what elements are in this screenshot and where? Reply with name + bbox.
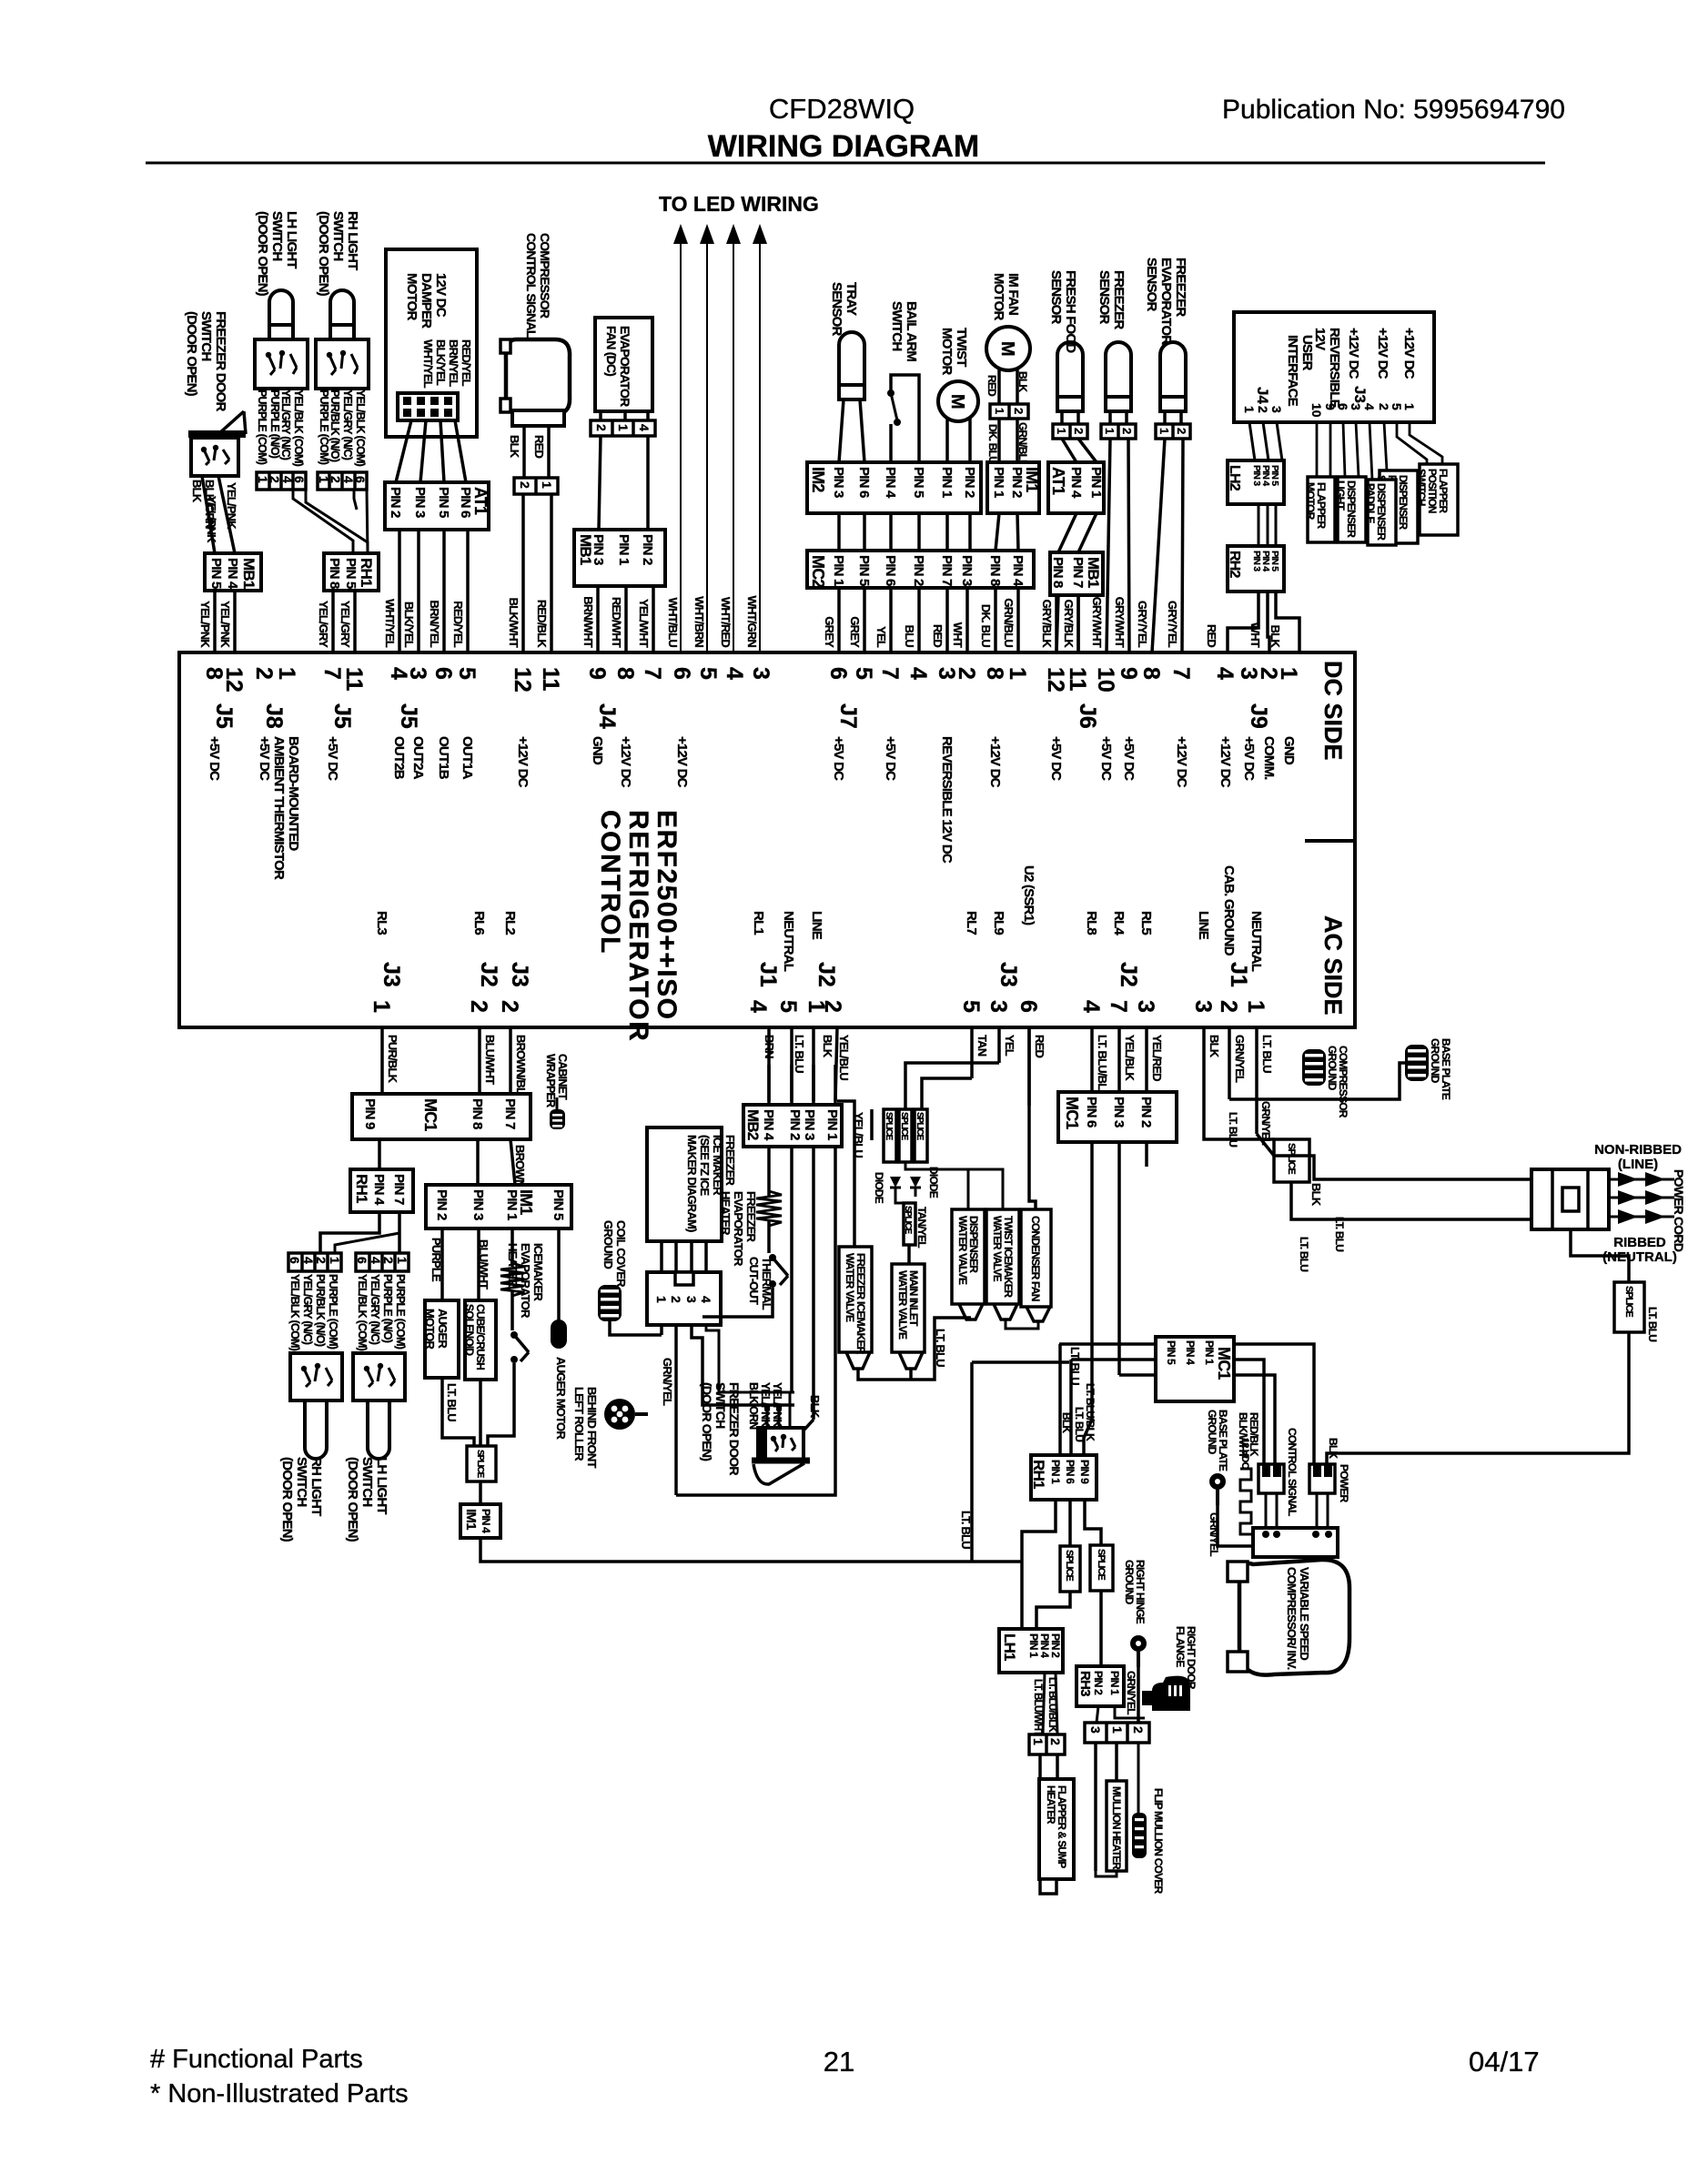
svg-text:+12V DC: +12V DC: [1375, 328, 1390, 379]
svg-text:BLK: BLK: [1016, 371, 1029, 392]
svg-text:YEL/GRY: YEL/GRY: [317, 601, 330, 648]
svg-text:YEL/BLK (COM): YEL/BLK (COM): [292, 389, 305, 467]
svg-text:PURPLE (N/O): PURPLE (N/O): [268, 389, 281, 459]
svg-text:PURPLE (N/O): PURPLE (N/O): [381, 1274, 394, 1343]
svg-text:LT. BLU: LT. BLU: [1646, 1307, 1659, 1341]
svg-text:3: 3: [986, 1000, 1011, 1013]
svg-text:AC SIDE: AC SIDE: [1319, 915, 1347, 1016]
svg-text:6: 6: [825, 667, 851, 680]
svg-text:1: 1: [369, 1000, 394, 1013]
svg-text:BEHIND FRONTLEFT ROLLER: BEHIND FRONTLEFT ROLLER: [572, 1387, 599, 1468]
svg-text:PUR/BLK (N/O): PUR/BLK (N/O): [314, 1274, 327, 1347]
svg-text:SPLICE: SPLICE: [475, 1450, 485, 1478]
svg-text:COMPRESSORCONTROL SIGNAL: COMPRESSORCONTROL SIGNAL: [524, 233, 552, 339]
svg-text:PURPLE (COM): PURPLE (COM): [318, 389, 330, 465]
svg-text:2: 2: [518, 481, 532, 489]
svg-text:BROWN: BROWN: [513, 1145, 527, 1188]
svg-text:J3: J3: [1351, 386, 1369, 403]
svg-text:SPLICE: SPLICE: [1096, 1549, 1107, 1580]
svg-text:RL9: RL9: [991, 911, 1006, 935]
svg-text:RED/WHT: RED/WHT: [610, 597, 623, 648]
svg-text:2: 2: [1175, 428, 1188, 434]
svg-text:10: 10: [1093, 667, 1118, 693]
svg-text:RED: RED: [1033, 1035, 1046, 1057]
svg-text:FREEZEREVAPORATORSENSOR: FREEZEREVAPORATORSENSOR: [1144, 258, 1188, 345]
svg-text:PIN 2: PIN 2: [388, 487, 403, 518]
svg-text:1: 1: [1242, 406, 1257, 413]
svg-text:PIN 1: PIN 1: [1027, 1633, 1040, 1658]
svg-text:GRN/YEL: GRN/YEL: [1208, 1512, 1220, 1556]
svg-text:PIN 7: PIN 7: [502, 1098, 518, 1129]
svg-text:2: 2: [669, 1296, 683, 1303]
svg-text:GRN/YEL: GRN/YEL: [1125, 1671, 1137, 1714]
svg-text:PIN 3: PIN 3: [412, 487, 428, 518]
svg-text:3: 3: [1088, 1726, 1103, 1734]
svg-text:8: 8: [982, 667, 1007, 680]
svg-text:GRN/BLU: GRN/BLU: [1002, 598, 1016, 647]
svg-text:+5V DC: +5V DC: [1048, 736, 1064, 781]
svg-text:RH LIGHTSWITCH(DOOR OPEN): RH LIGHTSWITCH(DOOR OPEN): [279, 1457, 324, 1542]
svg-text:PIN 4: PIN 4: [225, 558, 240, 590]
svg-text:1: 1: [1276, 667, 1301, 680]
svg-text:2: 2: [1048, 1738, 1063, 1745]
svg-text:IM1: IM1: [463, 1509, 479, 1530]
svg-text:J5: J5: [329, 703, 355, 729]
svg-text:NEUTRAL: NEUTRAL: [781, 911, 796, 972]
svg-text:NEUTRAL: NEUTRAL: [1248, 911, 1264, 972]
svg-text:GRY/BLK: GRY/BLK: [1062, 600, 1076, 649]
svg-text:1: 1: [1157, 428, 1171, 434]
svg-text:J3: J3: [996, 962, 1021, 987]
svg-text:BLK/YEL: BLK/YEL: [402, 602, 416, 648]
svg-text:DC SIDE: DC SIDE: [1319, 661, 1347, 761]
svg-text:PIN 5: PIN 5: [551, 1189, 566, 1220]
svg-text:YEL/GRY (N/C): YEL/GRY (N/C): [279, 389, 292, 460]
svg-text:MC1: MC1: [1215, 1347, 1233, 1380]
svg-text:4: 4: [369, 1257, 383, 1264]
svg-text:REVERSIBLE 12V DC: REVERSIBLE 12V DC: [939, 736, 955, 864]
svg-text:2: 2: [820, 1000, 845, 1013]
svg-text:2: 2: [594, 424, 609, 431]
svg-text:SPLICE: SPLICE: [903, 1206, 913, 1234]
svg-text:4: 4: [1212, 667, 1238, 680]
svg-text:TRAYSENSOR: TRAYSENSOR: [829, 282, 859, 337]
svg-text:PIN 1: PIN 1: [1088, 467, 1104, 498]
svg-text:RH LIGHTSWITCH(DOOR OPEN): RH LIGHTSWITCH(DOOR OPEN): [316, 211, 360, 297]
svg-text:PIN 7: PIN 7: [939, 555, 955, 586]
svg-text:POWER: POWER: [1338, 1464, 1350, 1502]
svg-text:GREY: GREY: [848, 616, 862, 648]
svg-text:PIN 3: PIN 3: [831, 467, 846, 498]
svg-text:LINE: LINE: [809, 911, 824, 940]
svg-text:2: 2: [329, 476, 343, 483]
svg-text:LINE: LINE: [1196, 911, 1211, 940]
svg-text:PIN 8: PIN 8: [470, 1098, 485, 1129]
svg-text:RL6: RL6: [471, 911, 487, 935]
svg-text:WHT/YEL: WHT/YEL: [383, 599, 397, 648]
svg-text:RL2: RL2: [502, 911, 518, 935]
svg-text:7: 7: [1168, 667, 1194, 680]
svg-text:RH1: RH1: [353, 1174, 370, 1203]
svg-text:+12V DC: +12V DC: [618, 736, 633, 788]
svg-text:PIN 4: PIN 4: [1184, 1340, 1197, 1365]
svg-text:2: 2: [1120, 428, 1134, 434]
svg-text:PIN 1: PIN 1: [939, 467, 955, 498]
svg-text:GRN/BLU: GRN/BLU: [1016, 422, 1029, 467]
svg-text:GRY/WHT: GRY/WHT: [1113, 597, 1127, 648]
svg-text:PIN 5: PIN 5: [208, 558, 224, 589]
svg-text:PIN 5: PIN 5: [1269, 551, 1280, 571]
svg-text:+12V DC: +12V DC: [674, 736, 690, 788]
svg-text:RED/YELBRN/YELBLK/YELWHT/YEL: RED/YELBRN/YELBLK/YELWHT/YEL: [421, 339, 473, 389]
svg-text:WHT/BLU: WHT/BLU: [666, 598, 680, 648]
svg-text:AUGER MOTOR: AUGER MOTOR: [554, 1357, 568, 1440]
svg-text:TAN/YEL: TAN/YEL: [915, 1207, 928, 1248]
svg-text:+12V DC: +12V DC: [1401, 328, 1417, 379]
svg-text:LT. BLU: LT. BLU: [959, 1511, 973, 1549]
svg-text:PIN 4: PIN 4: [883, 467, 898, 499]
svg-text:2: 2: [268, 476, 282, 483]
svg-text:YEL/BLK: YEL/BLK: [1123, 1035, 1137, 1081]
svg-text:YEL/PNK: YEL/PNK: [225, 482, 238, 530]
svg-text:7: 7: [319, 667, 345, 680]
svg-text:DIODE: DIODE: [927, 1167, 940, 1198]
svg-text:3: 3: [1190, 1000, 1216, 1013]
svg-text:PIN 4: PIN 4: [761, 1109, 776, 1141]
svg-text:BLK: BLK: [821, 1035, 834, 1058]
svg-text:4: 4: [699, 1296, 713, 1303]
svg-text:PIN 7: PIN 7: [1070, 557, 1086, 588]
svg-text:YEL/GRY (N/C): YEL/GRY (N/C): [341, 389, 354, 460]
svg-text:YEL: YEL: [1003, 1035, 1016, 1057]
svg-text:4: 4: [905, 667, 931, 680]
svg-text:+5V DC: +5V DC: [257, 736, 272, 781]
svg-text:J4: J4: [594, 703, 620, 729]
svg-text:LT. BLU: LT. BLU: [1260, 1035, 1274, 1073]
svg-text:4: 4: [1078, 1000, 1104, 1013]
svg-text:RL7: RL7: [964, 911, 979, 935]
svg-text:+5V DC: +5V DC: [883, 736, 898, 781]
svg-text:BAIL ARMSWITCH: BAIL ARMSWITCH: [889, 301, 919, 361]
svg-text:LT. BLU: LT. BLU: [1227, 1112, 1239, 1147]
svg-text:PIN 4: PIN 4: [1068, 467, 1084, 499]
svg-text:AUGERMOTOR: AUGERMOTOR: [423, 1309, 450, 1350]
svg-text:4: 4: [301, 1257, 316, 1264]
svg-text:FREEZEREVAPORATORHEATER: FREEZEREVAPORATORHEATER: [719, 1191, 758, 1267]
svg-text:BRN/YEL: BRN/YEL: [428, 601, 441, 648]
svg-text:YEL/PNK: YEL/PNK: [218, 601, 232, 648]
svg-text:BLK/WHT: BLK/WHT: [507, 598, 521, 648]
svg-text:1: 1: [1110, 1726, 1125, 1734]
svg-text:PIN 2: PIN 2: [1092, 1671, 1105, 1695]
svg-text:1: 1: [540, 481, 554, 489]
svg-text:7: 7: [877, 667, 903, 680]
svg-text:MC1: MC1: [421, 1098, 440, 1131]
svg-text:+5V DC: +5V DC: [1241, 736, 1257, 781]
svg-text:PIN 1: PIN 1: [1049, 1460, 1062, 1484]
svg-text:CONDENSER FAN: CONDENSER FAN: [1029, 1216, 1042, 1301]
svg-text:PIN 1: PIN 1: [991, 467, 1006, 498]
svg-text:J3: J3: [507, 962, 532, 987]
svg-text:BASE PLATEGROUND: BASE PLATEGROUND: [1206, 1410, 1229, 1471]
svg-text:RED: RED: [1205, 624, 1218, 647]
svg-text:+5V DC: +5V DC: [831, 736, 846, 781]
svg-text:6: 6: [1336, 403, 1350, 410]
svg-text:8: 8: [1138, 667, 1164, 680]
svg-text:GRN/YEL: GRN/YEL: [661, 1358, 674, 1406]
svg-text:2: 2: [381, 1257, 396, 1264]
svg-text:TO LED WIRING: TO LED WIRING: [659, 192, 819, 216]
svg-text:RL1: RL1: [751, 911, 766, 935]
svg-text:MC2: MC2: [809, 555, 827, 588]
svg-text:GND: GND: [590, 736, 605, 765]
svg-text:PIN 4: PIN 4: [480, 1509, 492, 1533]
svg-text:NON-RIBBED: NON-RIBBED: [1594, 1142, 1682, 1158]
svg-text:BASE PLATEGROUND: BASE PLATEGROUND: [1429, 1038, 1452, 1100]
svg-text:RH3: RH3: [1077, 1671, 1093, 1696]
svg-text:2: 2: [251, 667, 277, 680]
svg-text:1: 1: [1103, 428, 1117, 434]
svg-text:DK. BLU: DK. BLU: [979, 604, 993, 648]
svg-text:RED: RED: [931, 624, 945, 647]
svg-text:PIN 4: PIN 4: [1038, 1633, 1051, 1658]
svg-text:AT1: AT1: [471, 487, 490, 515]
svg-text:RH1: RH1: [1030, 1460, 1047, 1489]
svg-text:FREEZER DOORSWITCH(DOOR OPEN): FREEZER DOORSWITCH(DOOR OPEN): [700, 1382, 742, 1475]
svg-text:PUR/BLK (N/O): PUR/BLK (N/O): [329, 389, 341, 462]
svg-text:+12V DC: +12V DC: [515, 736, 531, 788]
svg-text:LT. BLU/BLK: LT. BLU/BLK: [1096, 1035, 1109, 1098]
svg-text:2: 2: [497, 1000, 522, 1013]
svg-text:J1: J1: [755, 962, 781, 987]
svg-text:+12V DC: +12V DC: [1218, 736, 1233, 788]
svg-text:PIN 3: PIN 3: [591, 534, 606, 565]
svg-text:MULLION HEATER: MULLION HEATER: [1110, 1786, 1121, 1870]
svg-text:J4: J4: [1254, 387, 1271, 404]
svg-text:GRY/YEL: GRY/YEL: [1166, 601, 1179, 648]
svg-text:PIN 1: PIN 1: [824, 1109, 840, 1140]
svg-text:6: 6: [1016, 1000, 1041, 1013]
svg-text:AT1: AT1: [1049, 467, 1067, 495]
svg-text:YEL/GRY (N/C): YEL/GRY (N/C): [301, 1274, 314, 1345]
svg-text:+12V DC: +12V DC: [1346, 328, 1361, 379]
svg-text:PIN 9: PIN 9: [1078, 1460, 1091, 1484]
svg-text:DK. BLU: DK. BLU: [986, 424, 999, 463]
svg-text:YEL/GRY (N/C): YEL/GRY (N/C): [369, 1274, 381, 1345]
svg-text:5: 5: [958, 1000, 984, 1013]
svg-text:PIN 5: PIN 5: [856, 555, 872, 586]
svg-text:9: 9: [584, 667, 610, 680]
svg-text:2: 2: [1256, 406, 1270, 413]
svg-text:5: 5: [851, 667, 876, 680]
svg-text:OUT2A: OUT2A: [410, 736, 426, 780]
svg-text:J2: J2: [1116, 962, 1141, 987]
svg-text:RH1: RH1: [358, 558, 375, 587]
svg-text:1: 1: [616, 424, 631, 431]
svg-text:IM2: IM2: [809, 467, 827, 492]
svg-text:2: 2: [1216, 1000, 1241, 1013]
svg-text:1: 1: [395, 1257, 409, 1264]
svg-text:PIN 3: PIN 3: [802, 1109, 817, 1140]
svg-text:RL5: RL5: [1138, 911, 1154, 935]
svg-text:PIN 2: PIN 2: [1009, 467, 1025, 498]
svg-text:+12V DC: +12V DC: [987, 736, 1003, 788]
svg-text:11: 11: [538, 667, 563, 692]
svg-text:WIRING DIAGRAM: WIRING DIAGRAM: [708, 129, 979, 164]
svg-text:6: 6: [430, 667, 456, 680]
svg-text:PIN 6: PIN 6: [883, 555, 898, 586]
svg-text:2: 2: [954, 667, 979, 680]
svg-text:LH1: LH1: [1001, 1633, 1018, 1661]
svg-text:4: 4: [637, 424, 652, 431]
svg-text:PIN 6: PIN 6: [1084, 1097, 1099, 1127]
svg-text:CONTROL SIGNAL: CONTROL SIGNAL: [1286, 1428, 1299, 1516]
svg-text:+5V DC: +5V DC: [1121, 736, 1137, 781]
svg-text:21: 21: [824, 2046, 854, 2078]
svg-text:1: 1: [993, 408, 1006, 414]
svg-text:IM1: IM1: [1023, 467, 1041, 492]
svg-text:6: 6: [353, 476, 368, 483]
svg-text:LH2: LH2: [1227, 465, 1242, 491]
svg-text:GRY/WHT: GRY/WHT: [1090, 597, 1104, 648]
svg-text:WHT/GRN: WHT/GRN: [745, 596, 759, 648]
svg-text:PIN 2: PIN 2: [911, 555, 926, 586]
svg-text:PIN 1: PIN 1: [1108, 1671, 1121, 1695]
svg-text:11: 11: [341, 667, 367, 692]
svg-text:+12V DC: +12V DC: [1174, 736, 1189, 788]
svg-text:9: 9: [1116, 667, 1141, 680]
svg-text:J9: J9: [1246, 703, 1271, 729]
svg-text:1: 1: [1005, 667, 1030, 680]
svg-text:YEL/PNK: YEL/PNK: [198, 601, 212, 648]
svg-text:DIODE: DIODE: [873, 1172, 885, 1204]
svg-text:12: 12: [1043, 667, 1068, 693]
svg-text:YEL/PNK: YEL/PNK: [205, 496, 218, 543]
svg-text:PIN 8: PIN 8: [327, 558, 342, 589]
svg-text:PIN 5: PIN 5: [1165, 1340, 1178, 1365]
svg-text:COMPRESSORGROUND: COMPRESSORGROUND: [1326, 1046, 1349, 1118]
svg-text:(LINE): (LINE): [1618, 1157, 1658, 1172]
svg-text:9: 9: [1323, 403, 1338, 410]
svg-text:PURPLE: PURPLE: [430, 1238, 443, 1282]
svg-text:8: 8: [612, 667, 638, 680]
svg-text:PIN 6: PIN 6: [856, 467, 872, 498]
svg-text:WHT: WHT: [951, 622, 965, 648]
svg-text:3: 3: [1133, 1000, 1158, 1013]
svg-text:GREY: GREY: [823, 616, 836, 648]
svg-text:WHT/RED: WHT/RED: [719, 597, 733, 647]
svg-text:PURPLE (COM): PURPLE (COM): [327, 1274, 339, 1350]
svg-text:YEL/BLK (COM): YEL/BLK (COM): [288, 1274, 301, 1351]
svg-text:LT. BLU: LT. BLU: [445, 1383, 459, 1421]
svg-text:BLK: BLK: [508, 435, 521, 459]
svg-text:MC1: MC1: [1063, 1097, 1081, 1129]
svg-text:3: 3: [1349, 403, 1363, 410]
svg-text:2: 2: [1012, 408, 1026, 414]
svg-text:OUT1B: OUT1B: [436, 736, 451, 780]
svg-text:BLK: BLK: [1208, 1035, 1221, 1058]
svg-text:1: 1: [654, 1296, 669, 1303]
svg-text:YEL/RED: YEL/RED: [1150, 1035, 1164, 1081]
svg-text:BLU/WHT: BLU/WHT: [483, 1035, 497, 1085]
svg-text:5: 5: [775, 1000, 801, 1013]
svg-text:MB1: MB1: [1085, 557, 1102, 588]
svg-text:PIN 8: PIN 8: [1050, 557, 1066, 588]
svg-text:FLIP MULLION COVER: FLIP MULLION COVER: [1152, 1788, 1165, 1895]
svg-text:M: M: [997, 341, 1017, 357]
svg-text:+5V DC: +5V DC: [1098, 736, 1114, 781]
svg-text:MB1: MB1: [240, 558, 258, 589]
svg-text:LH LIGHTSWITCH(DOOR OPEN): LH LIGHTSWITCH(DOOR OPEN): [255, 211, 299, 297]
svg-text:SPLICE: SPLICE: [915, 1112, 925, 1140]
svg-text:WHT/BRN: WHT/BRN: [692, 596, 706, 647]
svg-text:1: 1: [1243, 1000, 1269, 1013]
svg-text:PIN 1: PIN 1: [1203, 1340, 1216, 1365]
svg-text:J7: J7: [835, 703, 861, 729]
svg-text:SPLICE: SPLICE: [884, 1112, 894, 1140]
svg-text:J2: J2: [814, 962, 839, 987]
svg-text:6: 6: [355, 1257, 369, 1264]
svg-text:1: 1: [274, 667, 299, 680]
svg-text:5: 5: [454, 667, 480, 680]
svg-text:RH2: RH2: [1227, 551, 1242, 579]
svg-text:PIN 4: PIN 4: [371, 1174, 387, 1206]
svg-text:RIGHT HINGEGROUND: RIGHT HINGEGROUND: [1123, 1560, 1147, 1624]
svg-text:PIN 4: PIN 4: [1010, 555, 1026, 587]
svg-text:PIN 3: PIN 3: [470, 1189, 486, 1220]
svg-text:PIN 5: PIN 5: [911, 467, 926, 498]
svg-text:YEL: YEL: [874, 626, 888, 648]
svg-text:RED: RED: [532, 435, 546, 458]
svg-text:M: M: [947, 394, 967, 409]
svg-text:12: 12: [510, 667, 535, 693]
svg-text:5: 5: [695, 667, 721, 680]
svg-text:3: 3: [684, 1296, 699, 1303]
svg-text:RL4: RL4: [1111, 911, 1127, 935]
svg-text:5: 5: [1390, 403, 1404, 410]
svg-text:PURPLE (COM): PURPLE (COM): [394, 1274, 407, 1350]
svg-text:CAB. GROUND: CAB. GROUND: [1221, 865, 1237, 956]
svg-text:J5: J5: [211, 703, 237, 729]
svg-text:RIBBED: RIBBED: [1613, 1235, 1666, 1250]
svg-text:VARIABLE SPEEDCOMPRESSOR/ INV.: VARIABLE SPEEDCOMPRESSOR/ INV.: [1285, 1567, 1311, 1670]
svg-text:4: 4: [745, 1000, 771, 1013]
svg-text:J1: J1: [1226, 962, 1251, 987]
svg-text:4: 4: [722, 667, 747, 680]
svg-text:YEL/BLK (COM): YEL/BLK (COM): [354, 389, 367, 467]
svg-text:PIN 2: PIN 2: [1049, 1633, 1062, 1658]
svg-text:GRN/YEL: GRN/YEL: [1233, 1035, 1247, 1083]
svg-text:PIN 9: PIN 9: [362, 1098, 378, 1129]
svg-text:PIN 2: PIN 2: [434, 1189, 450, 1220]
svg-text:LT. BLU: LT. BLU: [1073, 1407, 1086, 1441]
svg-text:GRY/YEL: GRY/YEL: [1136, 601, 1149, 648]
svg-text:7: 7: [1106, 1000, 1131, 1013]
svg-text:SPLICE: SPLICE: [1286, 1143, 1297, 1174]
svg-text:4: 4: [1362, 403, 1377, 410]
svg-text:BLK: BLK: [1327, 1438, 1339, 1459]
svg-text:1: 1: [1402, 403, 1417, 410]
svg-text:RED: RED: [986, 375, 998, 397]
svg-text:LH LIGHTSWITCH(DOOR OPEN): LH LIGHTSWITCH(DOOR OPEN): [345, 1457, 389, 1542]
svg-text:BRN/WHT: BRN/WHT: [581, 596, 595, 648]
svg-text:PIN 8: PIN 8: [987, 555, 1003, 586]
svg-text:GRN/YEL: GRN/YEL: [1259, 1101, 1272, 1145]
svg-text:04/17: 04/17: [1469, 2046, 1540, 2078]
svg-text:12: 12: [221, 667, 247, 693]
svg-text:YEL/BLU: YEL/BLU: [837, 1035, 851, 1080]
svg-text:PIN 3: PIN 3: [959, 555, 975, 586]
